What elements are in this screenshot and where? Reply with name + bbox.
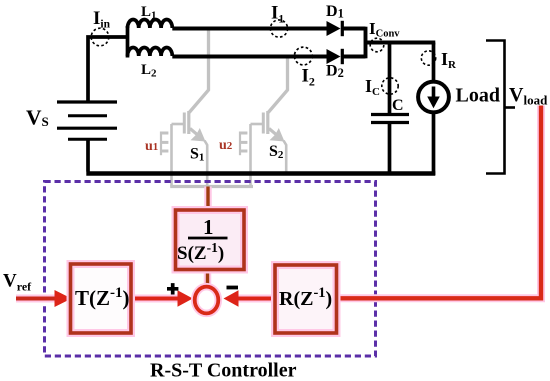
wire load branch upper <box>432 43 436 82</box>
arrowhead minus input <box>224 290 239 307</box>
wire control tap S1 to 1/S block <box>206 187 209 212</box>
wire feedback Vload to R block (pink glow) <box>337 106 542 299</box>
gate drive connector u2 comb <box>239 132 247 156</box>
wire R block to summing junction glow <box>237 295 275 303</box>
svg-text:L1: L1 <box>141 4 157 22</box>
current probe Iin <box>91 28 109 46</box>
svg-text:IR: IR <box>441 49 457 71</box>
wire L2 to D2 <box>172 55 327 59</box>
svg-text:L2: L2 <box>141 62 157 80</box>
wire capacitor branch upper <box>388 43 392 114</box>
current probe I1 <box>270 20 287 37</box>
block 1/S(Z-1) <box>176 210 245 270</box>
svg-text:IConv: IConv <box>369 19 400 40</box>
block T(Z-1) <box>71 264 132 333</box>
block T(Z-1) glow <box>71 264 132 333</box>
svg-text:C: C <box>392 97 404 114</box>
wire control tap S1 to 1/S block glow <box>204 187 212 212</box>
diode D2 <box>327 49 341 64</box>
wire load branch lower <box>432 113 436 176</box>
wire battery positive to inductor split <box>88 37 128 102</box>
svg-text:S(Z-1): S(Z-1) <box>177 240 224 264</box>
current probe IConv <box>370 38 384 52</box>
inductor L1 <box>128 19 173 28</box>
svg-text:VS: VS <box>26 106 49 130</box>
block R(Z-1) <box>275 265 337 333</box>
wire D2 cathode to junction <box>342 55 365 59</box>
svg-text:I2: I2 <box>302 66 315 89</box>
wire T block to summing junction glow <box>132 295 182 303</box>
node inductor split <box>126 26 130 58</box>
current source Load <box>418 82 449 113</box>
svg-text:Vref: Vref <box>3 271 32 294</box>
transistor S1 <box>172 28 209 187</box>
svg-text:D1: D1 <box>326 3 344 21</box>
wire L1 to D1 <box>172 27 327 31</box>
wire battery negative to bottom rail <box>86 139 90 171</box>
gate drive connector u1 comb <box>160 132 168 156</box>
svg-text:Iin: Iin <box>93 8 111 31</box>
block R(Z-1) glow <box>275 265 337 333</box>
wire D1 cathode to junction <box>342 27 365 31</box>
inductor L2 <box>128 47 173 56</box>
bracket Vload measurement <box>486 41 505 174</box>
wire 1/S block to summing junction glow <box>204 270 212 287</box>
arrowhead Vref into T <box>55 290 72 307</box>
wire 1/S block to summing junction <box>206 270 209 287</box>
current probe I2 <box>294 47 312 65</box>
wire gray gate bus below bottom rail <box>170 185 253 188</box>
current probe IR <box>421 51 435 65</box>
wire Vref input <box>16 297 58 301</box>
controller dashed box <box>45 182 376 357</box>
current probe IC <box>382 78 398 94</box>
svg-text:D2: D2 <box>326 63 344 81</box>
svg-text:S1: S1 <box>190 146 204 164</box>
wire capacitor branch lower <box>388 124 392 175</box>
svg-text:Vload: Vload <box>509 84 548 108</box>
label plus <box>167 283 178 294</box>
wire feedback Vload to R block <box>337 106 542 299</box>
svg-text:u1: u1 <box>145 139 158 154</box>
svg-text:IC: IC <box>365 76 380 98</box>
label minus <box>227 286 239 290</box>
wire converter output bus <box>366 41 436 45</box>
wire bottom rail <box>86 171 435 175</box>
diode D1 <box>327 21 341 36</box>
capacitor C <box>371 113 409 116</box>
svg-text:u2: u2 <box>219 138 233 153</box>
svg-text:S2: S2 <box>269 143 284 161</box>
svg-text:Load: Load <box>456 85 500 107</box>
svg-text:1: 1 <box>203 215 214 239</box>
transistor S2 <box>251 56 288 187</box>
svg-text:I1: I1 <box>271 3 284 26</box>
summing junction <box>195 287 219 314</box>
svg-text:R-S-T Controller: R-S-T Controller <box>150 360 297 381</box>
arrowhead plus input <box>178 290 193 307</box>
summing junction glow <box>195 287 219 314</box>
battery VS <box>57 102 117 139</box>
wire T block to summing junction <box>132 297 182 301</box>
wire R block to summing junction <box>237 297 275 301</box>
node diode junction vertical <box>364 27 368 59</box>
block 1/S(Z-1) glow <box>176 210 245 270</box>
wire Vref input glow <box>16 295 58 303</box>
